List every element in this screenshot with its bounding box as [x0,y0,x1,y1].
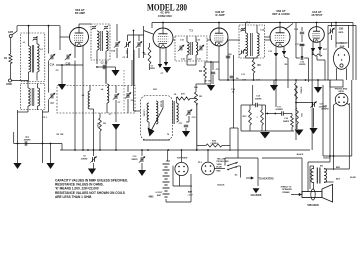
svg-text:SPEAKER: SPEAKER [282,188,292,191]
svg-text:.005MFD: .005MFD [275,109,283,111]
svg-text:BLUE: BLUE [350,177,356,179]
svg-text:DET & AUDIO: DET & AUDIO [272,12,289,16]
svg-text:.02MFD: .02MFD [299,64,306,66]
svg-text:PRONG END: PRONG END [216,161,229,163]
svg-text:VIEW: VIEW [338,91,343,93]
svg-text:FRAME: FRAME [282,191,290,194]
svg-text:R2 15K: R2 15K [57,134,64,136]
svg-text:BLACK: BLACK [324,157,332,160]
svg-text:.05MFD: .05MFD [23,140,31,142]
svg-text:C1C: C1C [125,50,127,55]
svg-text:CONV-OSC: CONV-OSC [158,14,172,18]
svg-text:OSC: OSC [153,89,158,91]
svg-text:1MEG: 1MEG [299,45,305,47]
svg-text:SHIELD TO: SHIELD TO [281,187,292,189]
svg-text:12B: 12B [339,28,344,31]
svg-text:IF AMP: IF AMP [215,13,224,17]
svg-text:BAT: BAT [188,191,193,194]
svg-text:ARE LESS THAN 1 OHM.: ARE LESS THAN 1 OHM. [55,195,92,199]
svg-text:L6 OSC: L6 OSC [143,110,145,117]
svg-text:+ 6 V: + 6 V [187,195,193,197]
svg-text:VIEW: VIEW [216,164,221,166]
svg-text:C1B: C1B [111,51,116,53]
svg-text:4G-530: 4G-530 [160,101,163,107]
svg-text:25MFD: 25MFD [131,159,138,161]
svg-text:10 MEG: 10 MEG [300,87,302,94]
svg-text:BLACK: BLACK [218,184,226,187]
svg-text:.05: .05 [232,92,235,94]
svg-text:T 3: T 3 [189,30,193,33]
svg-text:CONNECT: CONNECT [336,43,348,45]
svg-text:PRONG END: PRONG END [335,88,348,90]
svg-text:T 4: T 4 [246,22,250,25]
svg-text:20MFD: 20MFD [283,121,290,123]
svg-text:TO HEATERS: TO HEATERS [258,178,274,181]
svg-text:BLACK: BLACK [297,153,304,156]
svg-text:50K: 50K [194,87,198,89]
svg-text:.05MFD: .05MFD [81,158,88,160]
svg-text:C3 .1: C3 .1 [123,57,129,59]
svg-text:7.5MEG: 7.5MEG [210,143,218,145]
svg-text:YELLOW: YELLOW [217,158,226,160]
svg-text:OUTPUT: OUTPUT [311,13,322,17]
svg-text:4961: 4961 [148,196,154,199]
svg-text:GND: GND [6,83,12,86]
svg-text:AVC: AVC [188,58,192,61]
svg-text:RF AMP: RF AMP [75,11,85,15]
svg-text:BLK: BLK [336,179,341,181]
svg-text:R7 100: R7 100 [205,81,212,83]
svg-text:TOP VIEW: TOP VIEW [177,158,189,160]
svg-text:6 VOLT: 6 VOLT [156,192,164,194]
svg-text:.05MFD: .05MFD [255,98,262,100]
svg-text:47K: 47K [181,93,185,96]
svg-text:250: 250 [228,54,231,56]
svg-text:SPEAKER: SPEAKER [307,204,319,207]
svg-text:RED: RED [216,171,221,173]
svg-text:T6: T6 [167,134,169,136]
svg-text:C1A: C1A [50,64,55,67]
svg-text:400MFD: 400MFD [321,108,329,111]
svg-text:.1MFD: .1MFD [149,68,155,70]
svg-text:MFD: MFD [339,32,344,34]
svg-text:C2 .05: C2 .05 [101,63,108,65]
svg-text:ANT: ANT [8,31,14,34]
svg-text:R11: R11 [300,113,302,116]
svg-text:CHASSIS: CHASSIS [251,194,262,197]
